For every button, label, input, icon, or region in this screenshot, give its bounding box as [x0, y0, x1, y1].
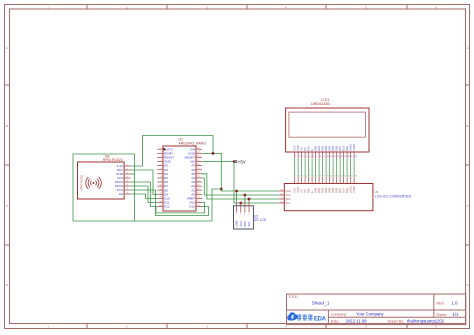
svg-text:5: 5 [309, 156, 311, 158]
svg-text:DB7: DB7 [338, 145, 342, 151]
svg-text:B: B [6, 124, 8, 128]
svg-text:Sheet_1: Sheet_1 [312, 301, 330, 307]
svg-text:LMB162ABC: LMB162ABC [311, 102, 331, 106]
svg-text:REV:: REV: [437, 301, 445, 305]
svg-text:BLK: BLK [345, 188, 349, 193]
svg-text:4: 4 [285, 325, 287, 329]
svg-text:SCL: SCL [286, 202, 291, 205]
svg-text:2: 2 [126, 325, 128, 329]
svg-text:LCD-I2C-CONVERTER: LCD-I2C-CONVERTER [375, 194, 412, 198]
svg-text:D12: D12 [164, 205, 170, 209]
svg-text:RS: RS [303, 147, 307, 151]
svg-text:E: E [310, 191, 314, 193]
svg-text:SS: SS [119, 192, 123, 196]
svg-text:1: 1 [295, 156, 297, 158]
svg-text:Sheet:: Sheet: [436, 313, 446, 317]
svg-text:DB7: DB7 [338, 187, 342, 193]
svg-text:RFID-RC522: RFID-RC522 [103, 158, 123, 162]
svg-text:3: 3 [244, 214, 246, 216]
svg-text:6: 6 [435, 325, 437, 329]
svg-text:VCC: VCC [286, 194, 291, 197]
svg-text:D: D [6, 283, 8, 287]
svg-text:D: D [466, 283, 468, 287]
svg-text:A: A [6, 46, 8, 50]
svg-text:5: 5 [365, 325, 367, 329]
svg-text:9: 9 [323, 176, 325, 178]
svg-text:A: A [467, 46, 469, 50]
svg-text:+5V: +5V [238, 159, 246, 164]
svg-text:RW: RW [307, 146, 311, 151]
svg-text:8: 8 [320, 176, 322, 178]
svg-text:E: E [310, 149, 314, 151]
svg-text:I2C LCD: I2C LCD [254, 218, 267, 222]
svg-text:GND: GND [235, 220, 239, 226]
svg-text:DB0: DB0 [314, 187, 318, 193]
svg-text:SCL: SCL [247, 221, 251, 227]
svg-text:LEDA: LEDA [349, 144, 353, 151]
svg-text:VO: VO [300, 147, 304, 151]
svg-text:8: 8 [320, 156, 322, 158]
svg-text:DB6: DB6 [335, 187, 339, 193]
svg-text:LEDK: LEDK [352, 144, 356, 151]
svg-text:DB5: DB5 [331, 187, 335, 193]
svg-text:DB6: DB6 [335, 145, 339, 151]
svg-text:DB4: DB4 [328, 145, 332, 151]
svg-text:1: 1 [295, 176, 297, 178]
svg-text:SDA: SDA [243, 221, 247, 227]
svg-text:4: 4 [306, 156, 308, 158]
svg-text:C: C [6, 204, 8, 208]
svg-text:1: 1 [47, 325, 49, 329]
svg-text:7: 7 [316, 176, 318, 178]
svg-text:C: C [466, 204, 468, 208]
svg-text:5: 5 [309, 176, 311, 178]
svg-text:9: 9 [323, 156, 325, 158]
svg-text:SDA: SDA [286, 198, 291, 201]
svg-text:thaihongquang1202: thaihongquang1202 [407, 319, 445, 324]
svg-text:3: 3 [302, 176, 304, 178]
svg-text:EDA: EDA [314, 316, 327, 322]
svg-text:Drawn By:: Drawn By: [388, 319, 405, 323]
svg-text:VCC: VCC [239, 221, 243, 227]
svg-text:2: 2 [299, 176, 301, 178]
svg-text:DB5: DB5 [331, 145, 335, 151]
svg-text:B: B [467, 124, 469, 128]
svg-text:LEDK: LEDK [352, 186, 356, 193]
svg-text:7: 7 [316, 156, 318, 158]
svg-text:Date:: Date: [331, 319, 340, 323]
svg-text:VDD: VDD [296, 187, 300, 193]
svg-text:DB3: DB3 [324, 145, 328, 151]
svg-text:3: 3 [206, 325, 208, 329]
svg-text:1.0: 1.0 [451, 301, 458, 306]
svg-text:RFID-RC522: RFID-RC522 [80, 174, 84, 190]
svg-text:DB0: DB0 [314, 145, 318, 151]
svg-text:BLA: BLA [342, 188, 346, 193]
svg-text:2: 2 [299, 156, 301, 158]
svg-text:18: 18 [355, 156, 358, 158]
svg-text:1/1: 1/1 [453, 312, 460, 317]
svg-text:D13: D13 [189, 205, 195, 209]
svg-text:2022-11-08: 2022-11-08 [346, 318, 368, 323]
svg-text:3: 3 [302, 156, 304, 158]
svg-text:BLK: BLK [345, 146, 349, 151]
svg-text:ARDUINO_NANO: ARDUINO_NANO [179, 142, 207, 146]
svg-text:VSS: VSS [293, 145, 297, 150]
svg-text:2: 2 [240, 214, 242, 216]
svg-text:6: 6 [313, 176, 315, 178]
svg-text:DB4: DB4 [328, 187, 332, 193]
svg-text:18: 18 [355, 176, 358, 178]
svg-text:GND: GND [286, 190, 292, 193]
svg-text:LEDA: LEDA [349, 186, 353, 193]
svg-text:DB1: DB1 [317, 187, 321, 193]
svg-text:DB1: DB1 [317, 145, 321, 151]
svg-text:6: 6 [313, 156, 315, 158]
svg-text:DB2: DB2 [321, 187, 325, 193]
svg-text:Your Company: Your Company [356, 312, 384, 317]
svg-text:DB3: DB3 [324, 187, 328, 193]
svg-text:DB2: DB2 [321, 145, 325, 151]
svg-text:RS: RS [303, 189, 307, 193]
svg-text:1: 1 [236, 214, 238, 216]
svg-text:BLA: BLA [342, 146, 346, 151]
svg-text:RW: RW [307, 188, 311, 193]
svg-text:Company:: Company: [331, 312, 347, 316]
svg-text:4: 4 [248, 214, 250, 216]
svg-text:TITLE:: TITLE: [289, 295, 299, 299]
svg-text:VO: VO [300, 189, 304, 193]
svg-text:VSS: VSS [293, 187, 297, 192]
svg-text:4: 4 [306, 176, 308, 178]
svg-text:VDD: VDD [296, 145, 300, 151]
